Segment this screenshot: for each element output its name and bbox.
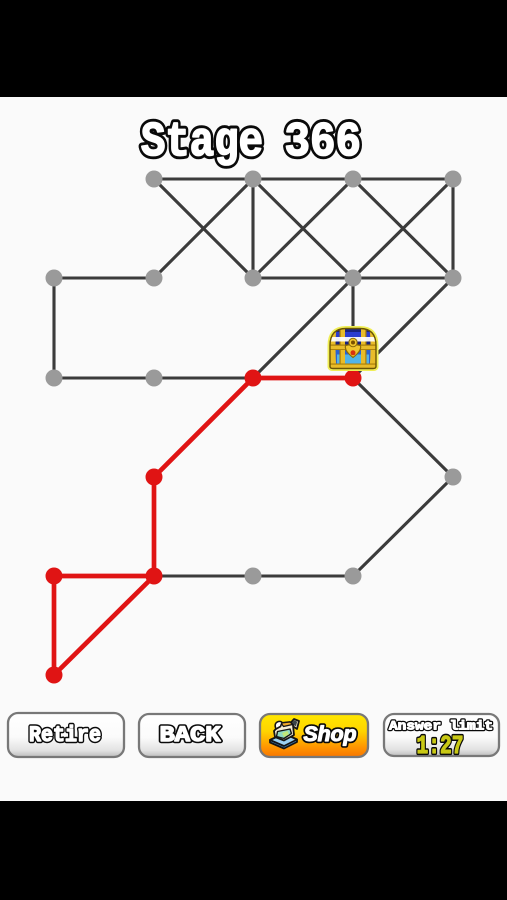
svg-text:BACK: BACK [160,722,222,748]
svg-text:Shop: Shop [304,723,357,746]
svg-text:366: 366 [285,116,362,170]
svg-text:Retire: Retire [29,723,101,748]
svg-text:Stage: Stage [141,116,263,170]
svg-text:1:27: 1:27 [417,732,464,761]
